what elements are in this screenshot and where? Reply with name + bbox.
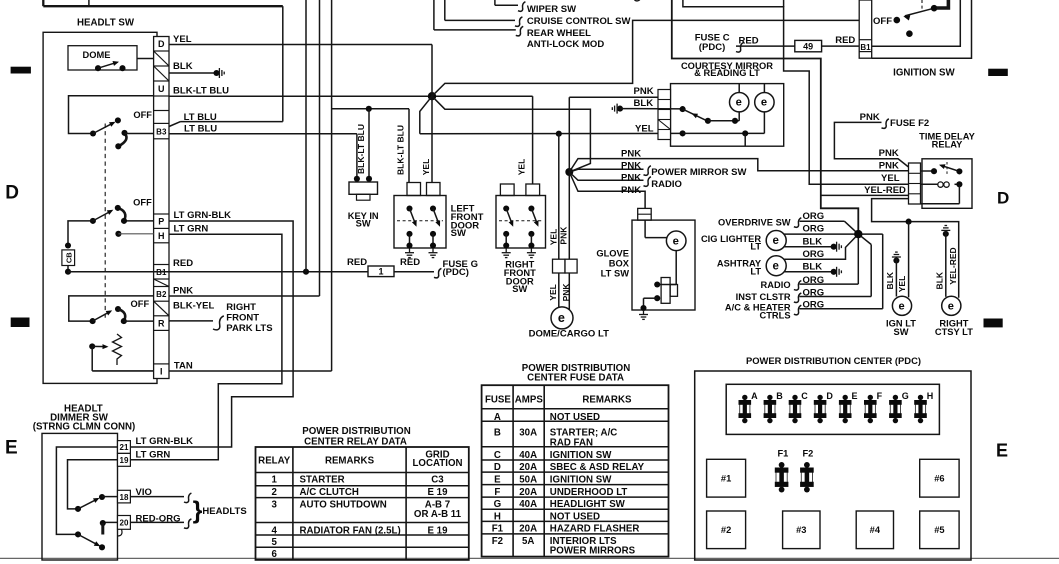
- svg-text:A: A: [751, 391, 758, 401]
- svg-text:#3: #3: [796, 525, 806, 535]
- svg-text:AUTO SHUTDOWN: AUTO SHUTDOWN: [300, 500, 387, 511]
- svg-text:E 19: E 19: [427, 525, 448, 536]
- svg-text:RED: RED: [400, 257, 420, 268]
- svg-text:SW: SW: [512, 284, 527, 294]
- svg-text:YEL: YEL: [516, 159, 526, 176]
- svg-text:PNK: PNK: [634, 86, 654, 97]
- svg-text:C3: C3: [431, 475, 444, 486]
- svg-text:LT GRN-BLK: LT GRN-BLK: [136, 436, 194, 447]
- svg-text:IGNITION SW: IGNITION SW: [550, 474, 612, 485]
- svg-text:BLK-YEL: BLK-YEL: [173, 300, 214, 311]
- svg-text:BLK: BLK: [173, 61, 193, 72]
- svg-text:HEADLIGHT SW: HEADLIGHT SW: [550, 499, 626, 510]
- svg-text:RIGHT: RIGHT: [226, 302, 256, 313]
- svg-text:& READING LT: & READING LT: [694, 68, 760, 78]
- svg-text:LT: LT: [750, 266, 761, 276]
- svg-text:30A: 30A: [519, 427, 537, 438]
- svg-text:e: e: [558, 311, 565, 325]
- svg-text:YEL: YEL: [548, 284, 558, 301]
- svg-text:LT BLU: LT BLU: [184, 123, 217, 134]
- svg-text:(PDC): (PDC): [699, 42, 726, 53]
- svg-text:INST CLSTR: INST CLSTR: [736, 292, 791, 302]
- svg-text:20A: 20A: [519, 487, 537, 498]
- svg-text:(STRNG CLMN CONN): (STRNG CLMN CONN): [33, 422, 136, 433]
- svg-text:YEL: YEL: [881, 173, 900, 184]
- svg-text:e: e: [948, 300, 954, 312]
- svg-text:STARTER: STARTER: [300, 475, 345, 486]
- svg-text:YEL: YEL: [548, 229, 558, 246]
- svg-text:C: C: [494, 450, 501, 461]
- svg-text:e: e: [772, 260, 778, 272]
- svg-text:#5: #5: [934, 525, 944, 535]
- svg-text:PNK: PNK: [621, 185, 641, 196]
- svg-text:YEL: YEL: [897, 276, 907, 293]
- svg-text:20: 20: [119, 519, 128, 528]
- svg-text:20A: 20A: [519, 524, 537, 535]
- svg-text:OR A-B 11: OR A-B 11: [414, 509, 462, 520]
- svg-text:18: 18: [119, 493, 128, 502]
- svg-text:C: C: [801, 391, 808, 401]
- svg-text:21: 21: [119, 443, 128, 452]
- svg-text:(PDC): (PDC): [443, 267, 470, 278]
- svg-text:A: A: [494, 412, 501, 423]
- svg-text:LT: LT: [750, 242, 761, 252]
- svg-text:HEADLT SW: HEADLT SW: [77, 18, 135, 29]
- svg-text:E: E: [852, 391, 858, 401]
- svg-text:LT GRN-BLK: LT GRN-BLK: [174, 210, 232, 221]
- svg-text:E: E: [5, 437, 18, 458]
- svg-text:BLK: BLK: [803, 236, 823, 247]
- svg-text:FUSE: FUSE: [485, 395, 511, 406]
- svg-text:e: e: [673, 235, 679, 247]
- svg-text:G: G: [902, 391, 909, 401]
- svg-text:POWER DISTRIBUTION CENTER (PDC: POWER DISTRIBUTION CENTER (PDC): [746, 355, 921, 366]
- svg-text:BLK-LT BLU: BLK-LT BLU: [396, 125, 406, 175]
- svg-text:OFF: OFF: [131, 299, 150, 309]
- svg-text:IGNITION SW: IGNITION SW: [893, 68, 955, 79]
- svg-text:F1: F1: [492, 524, 504, 535]
- svg-text:49: 49: [803, 41, 813, 51]
- svg-text:UNDERHOOD LT: UNDERHOOD LT: [550, 487, 628, 498]
- svg-text:POWER DISTRIBUTION: POWER DISTRIBUTION: [302, 426, 411, 437]
- svg-text:FRONT: FRONT: [226, 312, 259, 323]
- svg-text:CB: CB: [64, 252, 73, 263]
- svg-text:RELAY: RELAY: [258, 456, 291, 467]
- svg-text:F2: F2: [492, 536, 503, 547]
- svg-text:#1: #1: [721, 474, 731, 484]
- svg-text:H: H: [494, 512, 501, 523]
- svg-text:RED: RED: [835, 35, 855, 46]
- svg-text:YEL: YEL: [173, 34, 192, 45]
- svg-text:H: H: [158, 231, 165, 241]
- svg-text:RED: RED: [347, 257, 367, 268]
- svg-text:PNK: PNK: [621, 160, 641, 171]
- svg-text:e: e: [761, 97, 767, 109]
- svg-text:DOME: DOME: [83, 50, 111, 60]
- svg-text:RADIO: RADIO: [651, 179, 682, 190]
- svg-text:CRUISE CONTROL SW: CRUISE CONTROL SW: [527, 16, 631, 27]
- svg-text:POWER MIRROR SW: POWER MIRROR SW: [651, 167, 746, 178]
- svg-text:HAZARD FLASHER: HAZARD FLASHER: [550, 524, 640, 535]
- svg-text:ANTI-LOCK MOD: ANTI-LOCK MOD: [527, 39, 604, 50]
- svg-text:BLK-LT BLU: BLK-LT BLU: [173, 86, 229, 97]
- svg-text:YEL-RED: YEL-RED: [864, 185, 906, 196]
- svg-text:HEADLTS: HEADLTS: [202, 506, 246, 517]
- svg-text:POWER MIRRORS: POWER MIRRORS: [550, 546, 636, 557]
- svg-text:U: U: [158, 84, 165, 94]
- svg-text:YEL-RED: YEL-RED: [948, 247, 958, 284]
- svg-text:BOX: BOX: [609, 259, 630, 269]
- svg-text:ORG: ORG: [803, 211, 825, 222]
- svg-text:19: 19: [119, 456, 128, 465]
- svg-text:#4: #4: [870, 525, 881, 535]
- svg-text:REAR WHEEL: REAR WHEEL: [527, 28, 591, 39]
- svg-text:40A: 40A: [519, 450, 537, 461]
- svg-text:PNK: PNK: [173, 286, 193, 297]
- svg-text:#2: #2: [721, 525, 731, 535]
- svg-text:PARK LTS: PARK LTS: [226, 323, 272, 334]
- svg-text:PNK: PNK: [879, 160, 899, 171]
- svg-text:YEL: YEL: [635, 123, 654, 134]
- svg-text:D: D: [997, 189, 1009, 208]
- svg-text:NOT USED: NOT USED: [550, 512, 600, 523]
- svg-text:40A: 40A: [519, 499, 537, 510]
- svg-text:5: 5: [271, 537, 277, 548]
- svg-text:E: E: [996, 441, 1008, 461]
- svg-text:SW: SW: [356, 219, 371, 229]
- svg-text:B1: B1: [156, 268, 167, 277]
- svg-text:SW: SW: [893, 327, 908, 337]
- svg-text:PNK: PNK: [860, 112, 880, 123]
- svg-text:50A: 50A: [519, 474, 537, 485]
- svg-text:}: }: [193, 496, 203, 524]
- svg-text:H: H: [927, 391, 934, 401]
- svg-text:AMPS: AMPS: [515, 395, 544, 406]
- svg-text:D: D: [494, 462, 501, 473]
- svg-text:WIPER SW: WIPER SW: [527, 4, 576, 15]
- svg-text:OFF: OFF: [133, 110, 152, 120]
- svg-text:YEL: YEL: [421, 159, 431, 176]
- svg-text:E 19: E 19: [427, 487, 448, 498]
- svg-text:P: P: [158, 217, 164, 227]
- svg-text:e: e: [772, 235, 778, 247]
- svg-text:RADIATOR FAN (2.5L): RADIATOR FAN (2.5L): [300, 525, 401, 536]
- svg-text:OFF: OFF: [873, 16, 892, 27]
- svg-text:20A: 20A: [519, 462, 537, 473]
- svg-text:F1: F1: [777, 448, 788, 458]
- svg-text:4: 4: [271, 525, 277, 536]
- svg-text:CENTER FUSE DATA: CENTER FUSE DATA: [527, 373, 624, 384]
- svg-text:PNK: PNK: [561, 283, 571, 302]
- svg-text:B: B: [494, 427, 501, 438]
- svg-text:ORG: ORG: [803, 249, 825, 260]
- svg-text:PNK: PNK: [559, 226, 569, 245]
- svg-text:F2: F2: [802, 448, 813, 458]
- svg-text:LOCATION: LOCATION: [412, 458, 462, 469]
- svg-text:3: 3: [271, 500, 277, 511]
- svg-text:G: G: [494, 499, 502, 510]
- svg-text:5A: 5A: [522, 536, 534, 547]
- svg-text:BLK-LT BLU: BLK-LT BLU: [356, 124, 366, 174]
- svg-text:1: 1: [378, 267, 383, 277]
- svg-text:e: e: [736, 97, 742, 109]
- svg-text:RED: RED: [173, 258, 193, 269]
- svg-text:RED: RED: [739, 35, 759, 46]
- svg-text:R: R: [158, 319, 165, 329]
- svg-text:CTRLS: CTRLS: [760, 311, 791, 321]
- svg-text:REMARKS: REMARKS: [325, 456, 375, 467]
- svg-text:#6: #6: [934, 474, 944, 484]
- svg-text:REMARKS: REMARKS: [582, 395, 632, 406]
- svg-text:TAN: TAN: [174, 360, 193, 371]
- svg-text:6: 6: [271, 549, 277, 560]
- svg-text:e: e: [898, 300, 904, 312]
- svg-text:F: F: [494, 487, 500, 498]
- svg-text:F: F: [877, 391, 883, 401]
- svg-text:OVERDRIVE SW: OVERDRIVE SW: [718, 217, 791, 227]
- svg-text:FUSE F2: FUSE F2: [890, 118, 929, 129]
- svg-text:CTSY LT: CTSY LT: [935, 327, 973, 337]
- svg-text:PNK: PNK: [621, 148, 641, 159]
- svg-text:A/C CLUTCH: A/C CLUTCH: [300, 487, 359, 498]
- svg-text:RELAY: RELAY: [932, 140, 964, 150]
- svg-text:E: E: [494, 474, 501, 485]
- svg-text:DOME/CARGO LT: DOME/CARGO LT: [529, 328, 609, 339]
- svg-text:CENTER RELAY DATA: CENTER RELAY DATA: [304, 437, 407, 448]
- svg-text:B1: B1: [860, 43, 871, 52]
- svg-text:OFF: OFF: [133, 197, 152, 207]
- svg-text:SW: SW: [451, 228, 466, 239]
- svg-text:D: D: [158, 39, 165, 49]
- svg-text:BLK: BLK: [935, 271, 945, 289]
- svg-text:2: 2: [271, 487, 276, 498]
- svg-text:SBEC & ASD RELAY: SBEC & ASD RELAY: [550, 462, 645, 473]
- svg-text:NOT USED: NOT USED: [550, 412, 600, 423]
- svg-text:LT GRN: LT GRN: [174, 224, 209, 235]
- svg-text:B: B: [776, 391, 783, 401]
- svg-text:BLK: BLK: [885, 271, 895, 289]
- svg-text:PNK: PNK: [621, 173, 641, 184]
- svg-text:IGNITION SW: IGNITION SW: [550, 450, 612, 461]
- svg-text:LT GRN: LT GRN: [136, 450, 171, 461]
- svg-text:D: D: [5, 183, 19, 204]
- svg-text:ORG: ORG: [803, 224, 825, 235]
- svg-text:LT SW: LT SW: [601, 268, 630, 278]
- svg-text:RADIO: RADIO: [761, 280, 791, 290]
- svg-text:RAD FAN: RAD FAN: [550, 438, 593, 449]
- svg-text:D: D: [826, 391, 833, 401]
- svg-text:B3: B3: [156, 128, 167, 137]
- svg-text:BLK: BLK: [634, 98, 654, 109]
- svg-text:1: 1: [271, 475, 277, 486]
- svg-text:B2: B2: [156, 290, 167, 299]
- svg-text:BLK: BLK: [803, 261, 823, 272]
- svg-text:GLOVE: GLOVE: [596, 249, 629, 259]
- svg-text:PNK: PNK: [879, 148, 899, 159]
- svg-text:I: I: [160, 367, 163, 377]
